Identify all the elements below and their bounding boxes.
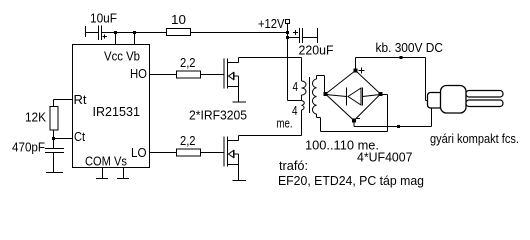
svg-text:12K: 12K <box>25 110 46 125</box>
svg-text:10: 10 <box>171 12 186 27</box>
svg-text:4: 4 <box>292 103 298 118</box>
svg-text:4: 4 <box>293 79 299 94</box>
svg-text:LO: LO <box>131 145 147 160</box>
svg-text:COM Vs: COM Vs <box>85 154 127 169</box>
svg-text:Ct: Ct <box>74 129 85 144</box>
svg-text:Rt: Rt <box>74 92 87 107</box>
svg-text:+12V: +12V <box>258 16 285 31</box>
svg-text:IR21531: IR21531 <box>93 104 141 119</box>
svg-text:2,2: 2,2 <box>180 55 196 70</box>
svg-text:4*UF4007: 4*UF4007 <box>357 150 413 165</box>
svg-text:10uF: 10uF <box>90 11 117 26</box>
svg-text:me.: me. <box>277 116 293 131</box>
svg-text:trafó:: trafó: <box>279 158 308 173</box>
svg-text:470pF: 470pF <box>12 140 45 155</box>
svg-text:kb. 300V DC: kb. 300V DC <box>376 40 444 55</box>
svg-text:2*IRF3205: 2*IRF3205 <box>189 108 247 123</box>
svg-text:Vcc Vb: Vcc Vb <box>104 49 140 64</box>
svg-text:2,2: 2,2 <box>180 133 196 148</box>
svg-text:HO: HO <box>130 66 147 81</box>
svg-text:220uF: 220uF <box>299 43 334 58</box>
svg-text:gyári kompakt fcs.: gyári kompakt fcs. <box>430 131 519 146</box>
svg-text:EF20, ETD24, PC táp mag: EF20, ETD24, PC táp mag <box>278 173 424 188</box>
